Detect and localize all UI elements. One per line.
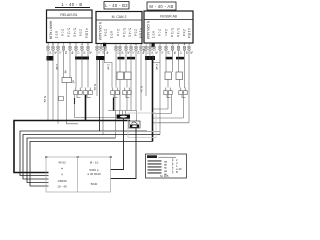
svg-text:2 ab: 2 ab — [155, 64, 159, 70]
svg-text:2 b a: 2 b a — [104, 29, 108, 36]
svg-text:L - 40 - B2: L - 40 - B2 — [105, 3, 128, 8]
svg-text:B: B — [176, 170, 178, 174]
svg-text:8: 8 — [52, 43, 54, 47]
svg-text:a b 1: a b 1 — [152, 31, 156, 38]
svg-text:Nr 305: Nr 305 — [160, 174, 169, 178]
svg-text:2 ab: 2 ab — [107, 64, 111, 70]
svg-text:2 b a: 2 b a — [134, 29, 138, 36]
svg-text:1 - 40 - B: 1 - 40 - B — [61, 2, 82, 7]
svg-text:4 1 B a: 4 1 B a — [139, 28, 143, 38]
svg-text:3: 3 — [188, 43, 190, 47]
svg-text:N 2a: N 2a — [140, 86, 144, 93]
svg-text:M - 40 - AB: M - 40 - AB — [149, 4, 173, 9]
svg-text:2 ab: 2 ab — [55, 64, 59, 70]
svg-text:M. CAN 2: M. CAN 2 — [112, 15, 127, 19]
svg-text:4 1 B a: 4 1 B a — [85, 28, 89, 38]
svg-text:10 - 40: 10 - 40 — [57, 185, 67, 189]
svg-text:2: 2 — [115, 43, 117, 47]
svg-text:5 / 4 b: 5 / 4 b — [128, 28, 132, 37]
svg-text:5 / 4 b: 5 / 4 b — [176, 28, 180, 37]
svg-text:1: 1 — [119, 43, 121, 47]
svg-text:2: 2 — [57, 43, 59, 47]
svg-text:RELAIS B1: RELAIS B1 — [60, 13, 77, 17]
svg-text:4 1 B a: 4 1 B a — [187, 28, 191, 38]
svg-text:2 b a: 2 b a — [182, 29, 186, 36]
svg-text:AVANT ALIM: AVANT ALIM — [49, 21, 53, 40]
svg-text:2 c a: 2 c a — [116, 29, 120, 36]
svg-text:FENSR AB: FENSR AB — [160, 14, 178, 18]
svg-text:5: 5 — [100, 43, 102, 47]
svg-text:2 a c: 2 a c — [164, 29, 168, 36]
svg-text:3: 3 — [47, 43, 49, 47]
svg-text:5: 5 — [69, 43, 71, 47]
svg-text:5: 5 — [125, 43, 127, 47]
svg-text:2 b a: 2 b a — [79, 29, 83, 36]
svg-text:5 / 2 a: 5 / 2 a — [122, 28, 126, 37]
svg-text:2 c a: 2 c a — [61, 29, 65, 36]
svg-text:1: 1 — [63, 43, 65, 47]
svg-text:4: 4 — [184, 43, 186, 47]
svg-text:5: 5 — [172, 43, 174, 47]
svg-text:5040: 5040 — [91, 182, 98, 186]
svg-text:6: 6 — [87, 43, 89, 47]
svg-text:a2: a2 — [71, 80, 75, 84]
svg-text:2 c a: 2 c a — [158, 29, 162, 36]
svg-text:a 40 5040: a 40 5040 — [87, 172, 101, 176]
svg-text:8: 8 — [149, 43, 151, 47]
svg-text:5 / 4 b: 5 / 4 b — [73, 28, 77, 37]
svg-text:N 2a: N 2a — [93, 84, 97, 91]
svg-text:49 52: 49 52 — [58, 161, 66, 165]
svg-text:2: 2 — [159, 43, 161, 47]
svg-text:N CAN ALIM: N CAN ALIM — [98, 22, 102, 40]
svg-text:2: 2 — [178, 43, 180, 47]
svg-text:4: 4 — [135, 43, 137, 47]
svg-text:N 2a: N 2a — [43, 96, 47, 103]
svg-text:1: 1 — [165, 43, 167, 47]
svg-text:49: 49 — [63, 70, 67, 74]
svg-text:5 / 2 a: 5 / 2 a — [170, 28, 174, 37]
svg-text:a b 1: a b 1 — [110, 31, 114, 38]
svg-text:2: 2 — [75, 43, 77, 47]
svg-text:N CAN ALIM: N CAN ALIM — [146, 21, 150, 39]
svg-text:1: 1 — [96, 43, 98, 47]
svg-text:M - 10: M - 10 — [90, 161, 99, 165]
svg-text:2: 2 — [130, 43, 132, 47]
svg-text:5 / 2 a: 5 / 2 a — [67, 28, 71, 37]
svg-text:4: 4 — [81, 43, 83, 47]
svg-text:1/8040: 1/8040 — [57, 179, 67, 183]
svg-text:a b 1: a b 1 — [55, 31, 59, 38]
